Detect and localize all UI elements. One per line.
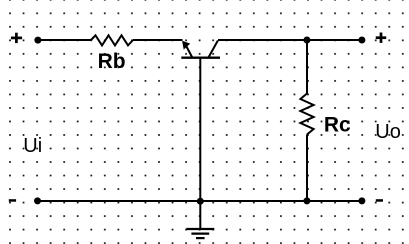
wire Rc branch top <box>306 40 308 94</box>
wire Rb to emitter <box>133 39 183 41</box>
node collector junction <box>303 37 310 44</box>
svg-text:Ui: Ui <box>23 135 42 157</box>
wire input node to Rb <box>38 39 91 41</box>
label Rb <box>98 50 126 73</box>
resistor Rc <box>300 94 313 135</box>
resistor Rb <box>91 35 133 45</box>
label Ui <box>23 135 42 157</box>
svg-text:Rc: Rc <box>324 113 351 136</box>
node output bottom <box>358 197 365 204</box>
wire base lead <box>199 58 201 201</box>
input - terminal <box>9 199 16 202</box>
transistor Q1 <box>181 41 220 58</box>
output + terminal <box>376 33 387 43</box>
wire Rc bottom <box>306 135 308 202</box>
output - terminal <box>376 199 383 202</box>
input + terminal <box>11 33 22 43</box>
node base-ground junction <box>197 198 204 205</box>
node input top <box>34 37 41 44</box>
svg-text:Rb: Rb <box>98 50 126 73</box>
wire collector to output node <box>218 39 362 41</box>
ground <box>186 201 214 238</box>
label Rc <box>324 113 351 136</box>
wire bottom rail <box>38 200 363 202</box>
label Uo <box>375 121 401 143</box>
node input bottom <box>34 197 41 204</box>
node output top <box>358 37 365 44</box>
svg-text:Uo: Uo <box>375 121 401 143</box>
node Rc bottom junction <box>303 197 310 204</box>
